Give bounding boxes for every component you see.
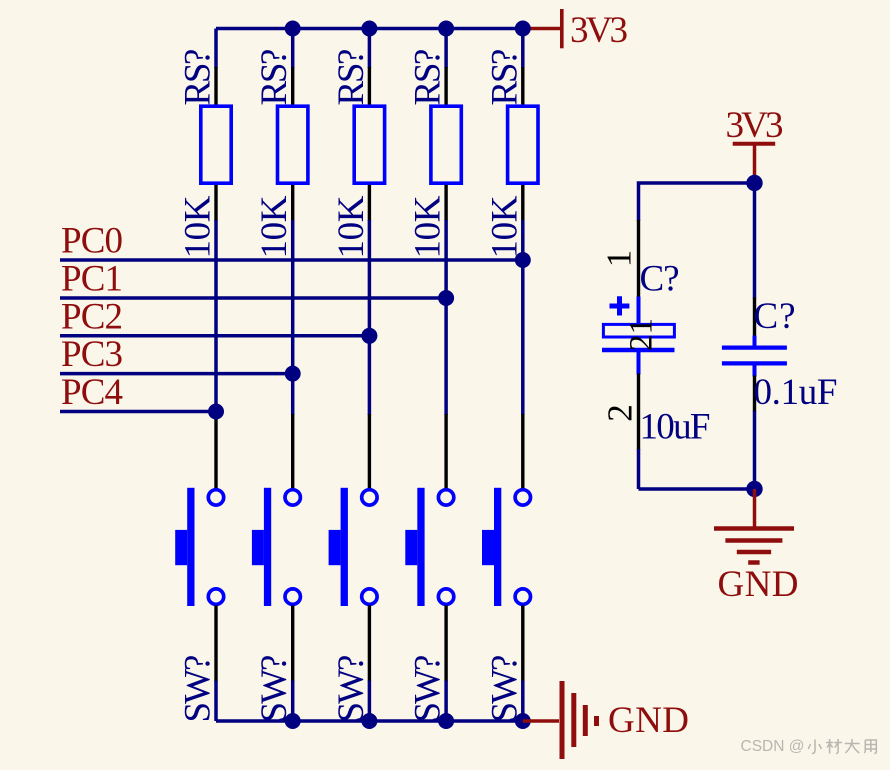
svg-text:2: 2	[601, 404, 640, 422]
svg-text:PC1: PC1	[61, 259, 123, 300]
svg-text:3V3: 3V3	[570, 10, 628, 51]
svg-text:PC3: PC3	[61, 334, 123, 375]
svg-text:PC2: PC2	[61, 297, 123, 338]
svg-text:SW?: SW?	[331, 655, 372, 723]
svg-text:CSDN @: CSDN @	[741, 738, 805, 755]
svg-text:PC4: PC4	[61, 372, 123, 413]
svg-text:GND: GND	[718, 564, 799, 605]
svg-text:RS?: RS?	[408, 49, 449, 106]
svg-text:3V3: 3V3	[726, 105, 784, 146]
svg-text:10K: 10K	[331, 195, 372, 258]
svg-text:SW?: SW?	[408, 655, 449, 723]
svg-text:10K: 10K	[254, 195, 295, 258]
svg-text:RS?: RS?	[331, 49, 372, 106]
svg-text:PC0: PC0	[61, 221, 123, 262]
svg-text:SW?: SW?	[484, 655, 525, 723]
svg-text:RS?: RS?	[484, 49, 525, 106]
svg-text:SW?: SW?	[178, 655, 219, 723]
svg-text:C?: C?	[640, 259, 680, 300]
svg-text:1: 1	[600, 250, 639, 268]
svg-text:10K: 10K	[178, 195, 219, 258]
svg-text:10uF: 10uF	[640, 407, 711, 448]
svg-text:RS?: RS?	[254, 49, 295, 106]
svg-text:0.1uF: 0.1uF	[754, 372, 838, 413]
svg-text:10K: 10K	[408, 195, 449, 258]
svg-text:10K: 10K	[484, 195, 525, 258]
svg-text:C?: C?	[754, 296, 796, 337]
svg-text:RS?: RS?	[178, 49, 219, 106]
svg-text:SW?: SW?	[254, 655, 295, 723]
svg-text:21: 21	[624, 318, 660, 351]
svg-text:GND: GND	[608, 700, 689, 741]
